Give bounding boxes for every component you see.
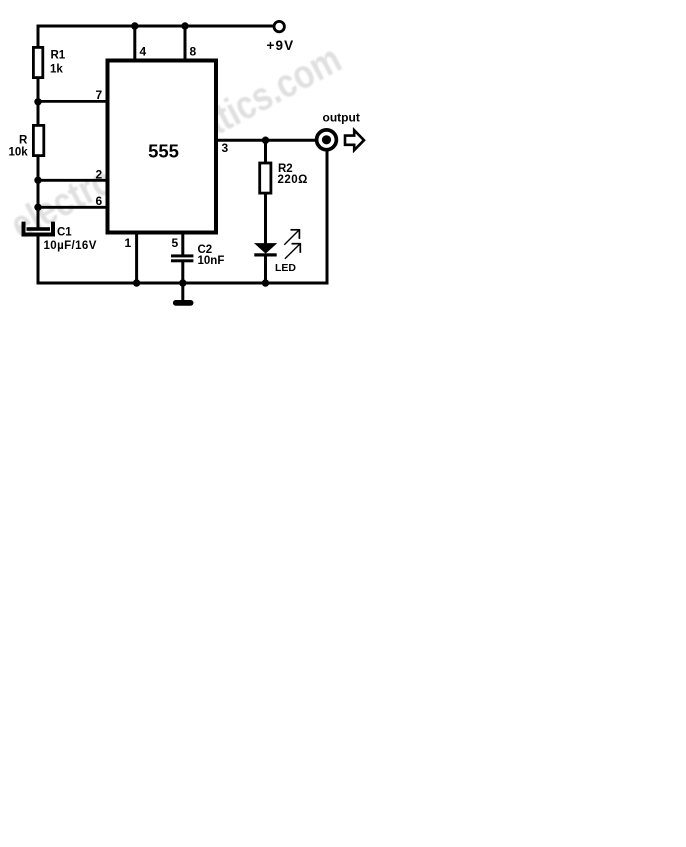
svg-text:LED: LED: [275, 262, 296, 274]
capacitor C1 (polarized): [24, 222, 54, 235]
terminal +9V: [274, 21, 284, 31]
wire C2 to ground rail: [181, 262, 184, 285]
wire C1 to ground rail: [37, 236, 40, 285]
svg-text:+9V: +9V: [267, 38, 295, 53]
wire LED to ground rail: [264, 256, 267, 284]
wire R2 top: [264, 140, 267, 163]
wire pin 6: [37, 206, 108, 209]
wire pin 4: [133, 26, 136, 61]
ground symbol: [173, 283, 194, 306]
resistor R 10k: [33, 125, 43, 155]
svg-text:R1: R1: [51, 50, 66, 62]
output arrow symbol: [345, 130, 364, 150]
wire V+ top rail: [37, 25, 274, 28]
node junction pin1 ground rail: [133, 279, 140, 286]
svg-text:1: 1: [125, 236, 132, 250]
resistor R1: [33, 47, 42, 77]
diode LED D1: [254, 243, 277, 256]
wire R to C1: [37, 157, 40, 229]
node C junction pin6: [34, 204, 41, 211]
svg-text:10µF/16V: 10µF/16V: [44, 240, 97, 252]
svg-text:1k: 1k: [50, 63, 63, 75]
svg-text:7: 7: [96, 88, 103, 102]
svg-text:C1: C1: [57, 227, 72, 239]
capacitor C2: [171, 254, 193, 262]
svg-text:8: 8: [190, 44, 197, 58]
node junction pin3/R2: [262, 137, 269, 144]
wire pin 3: [216, 139, 316, 142]
svg-text:6: 6: [96, 194, 103, 208]
wire pin 8: [184, 26, 187, 61]
svg-text:R: R: [19, 134, 28, 146]
wire pin 2: [37, 179, 108, 182]
wire R2 to LED: [264, 193, 267, 244]
svg-text:555: 555: [148, 141, 179, 162]
wire pin 7: [37, 100, 108, 103]
node junction pin5 ground rail: [179, 279, 186, 286]
svg-text:10k: 10k: [9, 147, 29, 159]
node junction LED ground rail: [262, 279, 269, 286]
wire bottom ground rail: [37, 282, 329, 285]
node junction pin4 top rail: [131, 22, 138, 29]
terminal output connector: [317, 130, 337, 150]
svg-text:5: 5: [172, 236, 179, 250]
wire output to ground rail: [326, 149, 329, 285]
svg-text:10nF: 10nF: [198, 255, 225, 267]
wire pin 1: [135, 232, 138, 284]
svg-text:output: output: [323, 111, 360, 125]
svg-text:3: 3: [222, 141, 229, 155]
resistor R2: [260, 163, 271, 193]
node B junction pin2: [34, 177, 41, 184]
LED emission arrows: [284, 230, 301, 259]
wire left rail to R1: [37, 25, 40, 49]
wire R1 to node A: [37, 79, 40, 125]
svg-text:4: 4: [140, 44, 147, 58]
node A junction R1/R/pin7: [34, 98, 41, 105]
node junction pin8 top rail: [181, 22, 188, 29]
op-amp/IC U1 555 body: [108, 61, 217, 233]
svg-text:220Ω: 220Ω: [278, 174, 308, 186]
svg-text:2: 2: [96, 167, 103, 181]
wire pin 5 upper: [181, 232, 184, 256]
